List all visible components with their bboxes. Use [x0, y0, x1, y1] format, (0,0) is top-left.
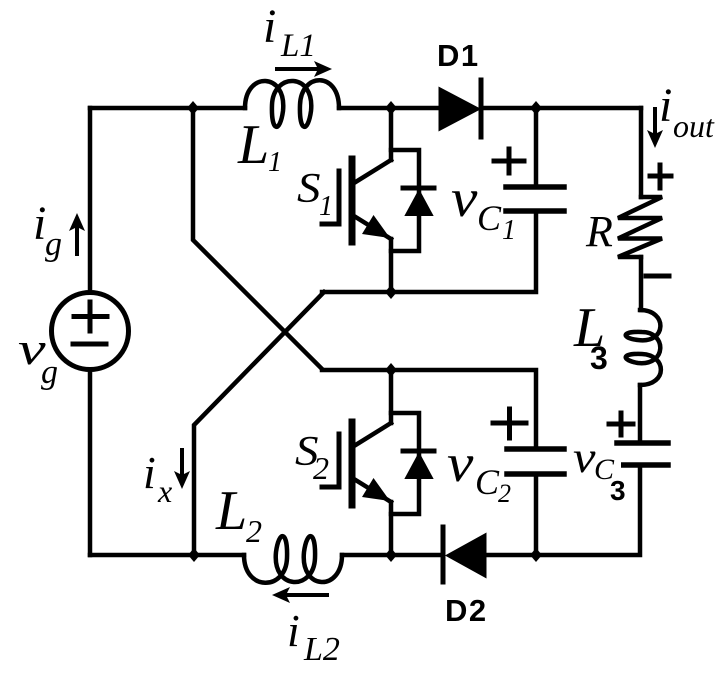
capacitor C3: [612, 443, 668, 465]
svg-text:i: i: [143, 447, 156, 498]
plus sign C2: [493, 409, 526, 438]
arrow iL1: [277, 61, 332, 77]
svg-text:1: 1: [319, 191, 333, 222]
svg-text:L2: L2: [303, 631, 340, 668]
wire R to L3: [639, 257, 644, 310]
node bottom-left: [188, 548, 200, 562]
node bottom-right: [530, 548, 542, 562]
arrow iout: [647, 109, 663, 148]
wire top rail right: [481, 106, 641, 111]
svg-text:1: 1: [268, 147, 282, 178]
wire vertical from top-left junction + diagonal to S2 node: [193, 108, 322, 369]
wire bottom rail right of D2: [485, 553, 536, 558]
svg-text:L: L: [237, 114, 269, 176]
plus sign C3: [609, 413, 633, 435]
diode of S2: [391, 413, 434, 514]
node top-right: [530, 101, 542, 115]
diode of S1: [391, 150, 434, 251]
wire horizontal S1 emitter node: [322, 212, 536, 292]
wire L3 to C3: [638, 385, 643, 443]
svg-text:out: out: [673, 108, 715, 144]
svg-text:v: v: [451, 168, 478, 228]
svg-text:g: g: [45, 226, 62, 263]
wire bottom rail left: [90, 553, 244, 558]
inductor L2: [244, 536, 342, 583]
svg-text:v: v: [573, 434, 596, 482]
wire C1 top lead: [534, 108, 539, 187]
svg-text:L1: L1: [280, 28, 316, 64]
svg-text:C: C: [475, 462, 500, 502]
svg-text:i: i: [263, 0, 276, 53]
plus sign C1: [494, 149, 524, 173]
svg-text:S: S: [297, 164, 321, 211]
wire top rail left: [90, 106, 245, 111]
minus sign R: [646, 274, 669, 279]
transistor S2 (IGBT): [322, 370, 391, 555]
capacitor C2: [507, 449, 564, 474]
svg-text:3: 3: [610, 475, 626, 506]
arrow iL2: [272, 587, 327, 603]
svg-text:C: C: [477, 198, 502, 238]
node S2 collector: [385, 363, 397, 377]
svg-text:D2: D2: [445, 593, 488, 628]
inductor L1: [245, 80, 339, 127]
wire left rail upper: [88, 108, 93, 291]
label v_C3: [604, 461, 621, 481]
node top-left: [187, 101, 199, 115]
wire C2 bottom lead: [534, 474, 539, 555]
svg-text:R: R: [585, 207, 613, 256]
svg-text:2: 2: [246, 513, 262, 549]
wire left rail lower: [88, 371, 93, 555]
svg-text:3: 3: [590, 340, 608, 376]
svg-text:D1: D1: [437, 38, 480, 73]
resistor R: [618, 197, 662, 257]
wire right rail upper: [639, 108, 644, 197]
node bottom-mid: [385, 548, 397, 562]
svg-text:i: i: [287, 605, 300, 656]
svg-text:i: i: [659, 79, 672, 132]
wire bottom rail mid: [342, 553, 443, 558]
node S1 emitter: [385, 285, 397, 299]
svg-text:g: g: [41, 354, 58, 391]
transistor S1 (IGBT): [322, 108, 391, 292]
wire C3 to bottom rail: [536, 465, 640, 555]
svg-text:1: 1: [502, 215, 516, 246]
inductor L3: [626, 310, 661, 385]
capacitor C1: [506, 187, 564, 211]
wire top rail mid: [339, 106, 440, 111]
svg-text:x: x: [157, 473, 172, 509]
diode D2: [443, 527, 485, 582]
diode D1: [440, 80, 481, 137]
svg-text:L: L: [215, 480, 247, 542]
source vg: [52, 293, 129, 370]
wire vertical from bottom-left junction + diagonal to S1 node: [194, 292, 324, 555]
svg-text:v: v: [447, 433, 474, 493]
svg-text:2: 2: [498, 479, 511, 508]
plus sign R: [650, 165, 671, 188]
node top-mid: [385, 101, 397, 115]
svg-text:2: 2: [313, 450, 329, 486]
arrow ig: [69, 213, 85, 254]
arrow ix: [174, 450, 190, 489]
wire horizontal S2 collector node: [322, 370, 536, 448]
